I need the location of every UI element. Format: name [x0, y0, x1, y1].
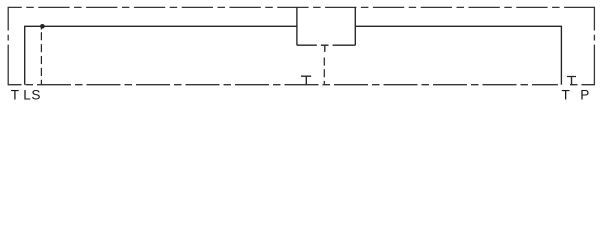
svg-text:T: T: [562, 87, 570, 102]
svg-text:T: T: [11, 87, 19, 102]
svg-text:LS: LS: [23, 87, 41, 102]
svg-text:P: P: [580, 87, 589, 102]
